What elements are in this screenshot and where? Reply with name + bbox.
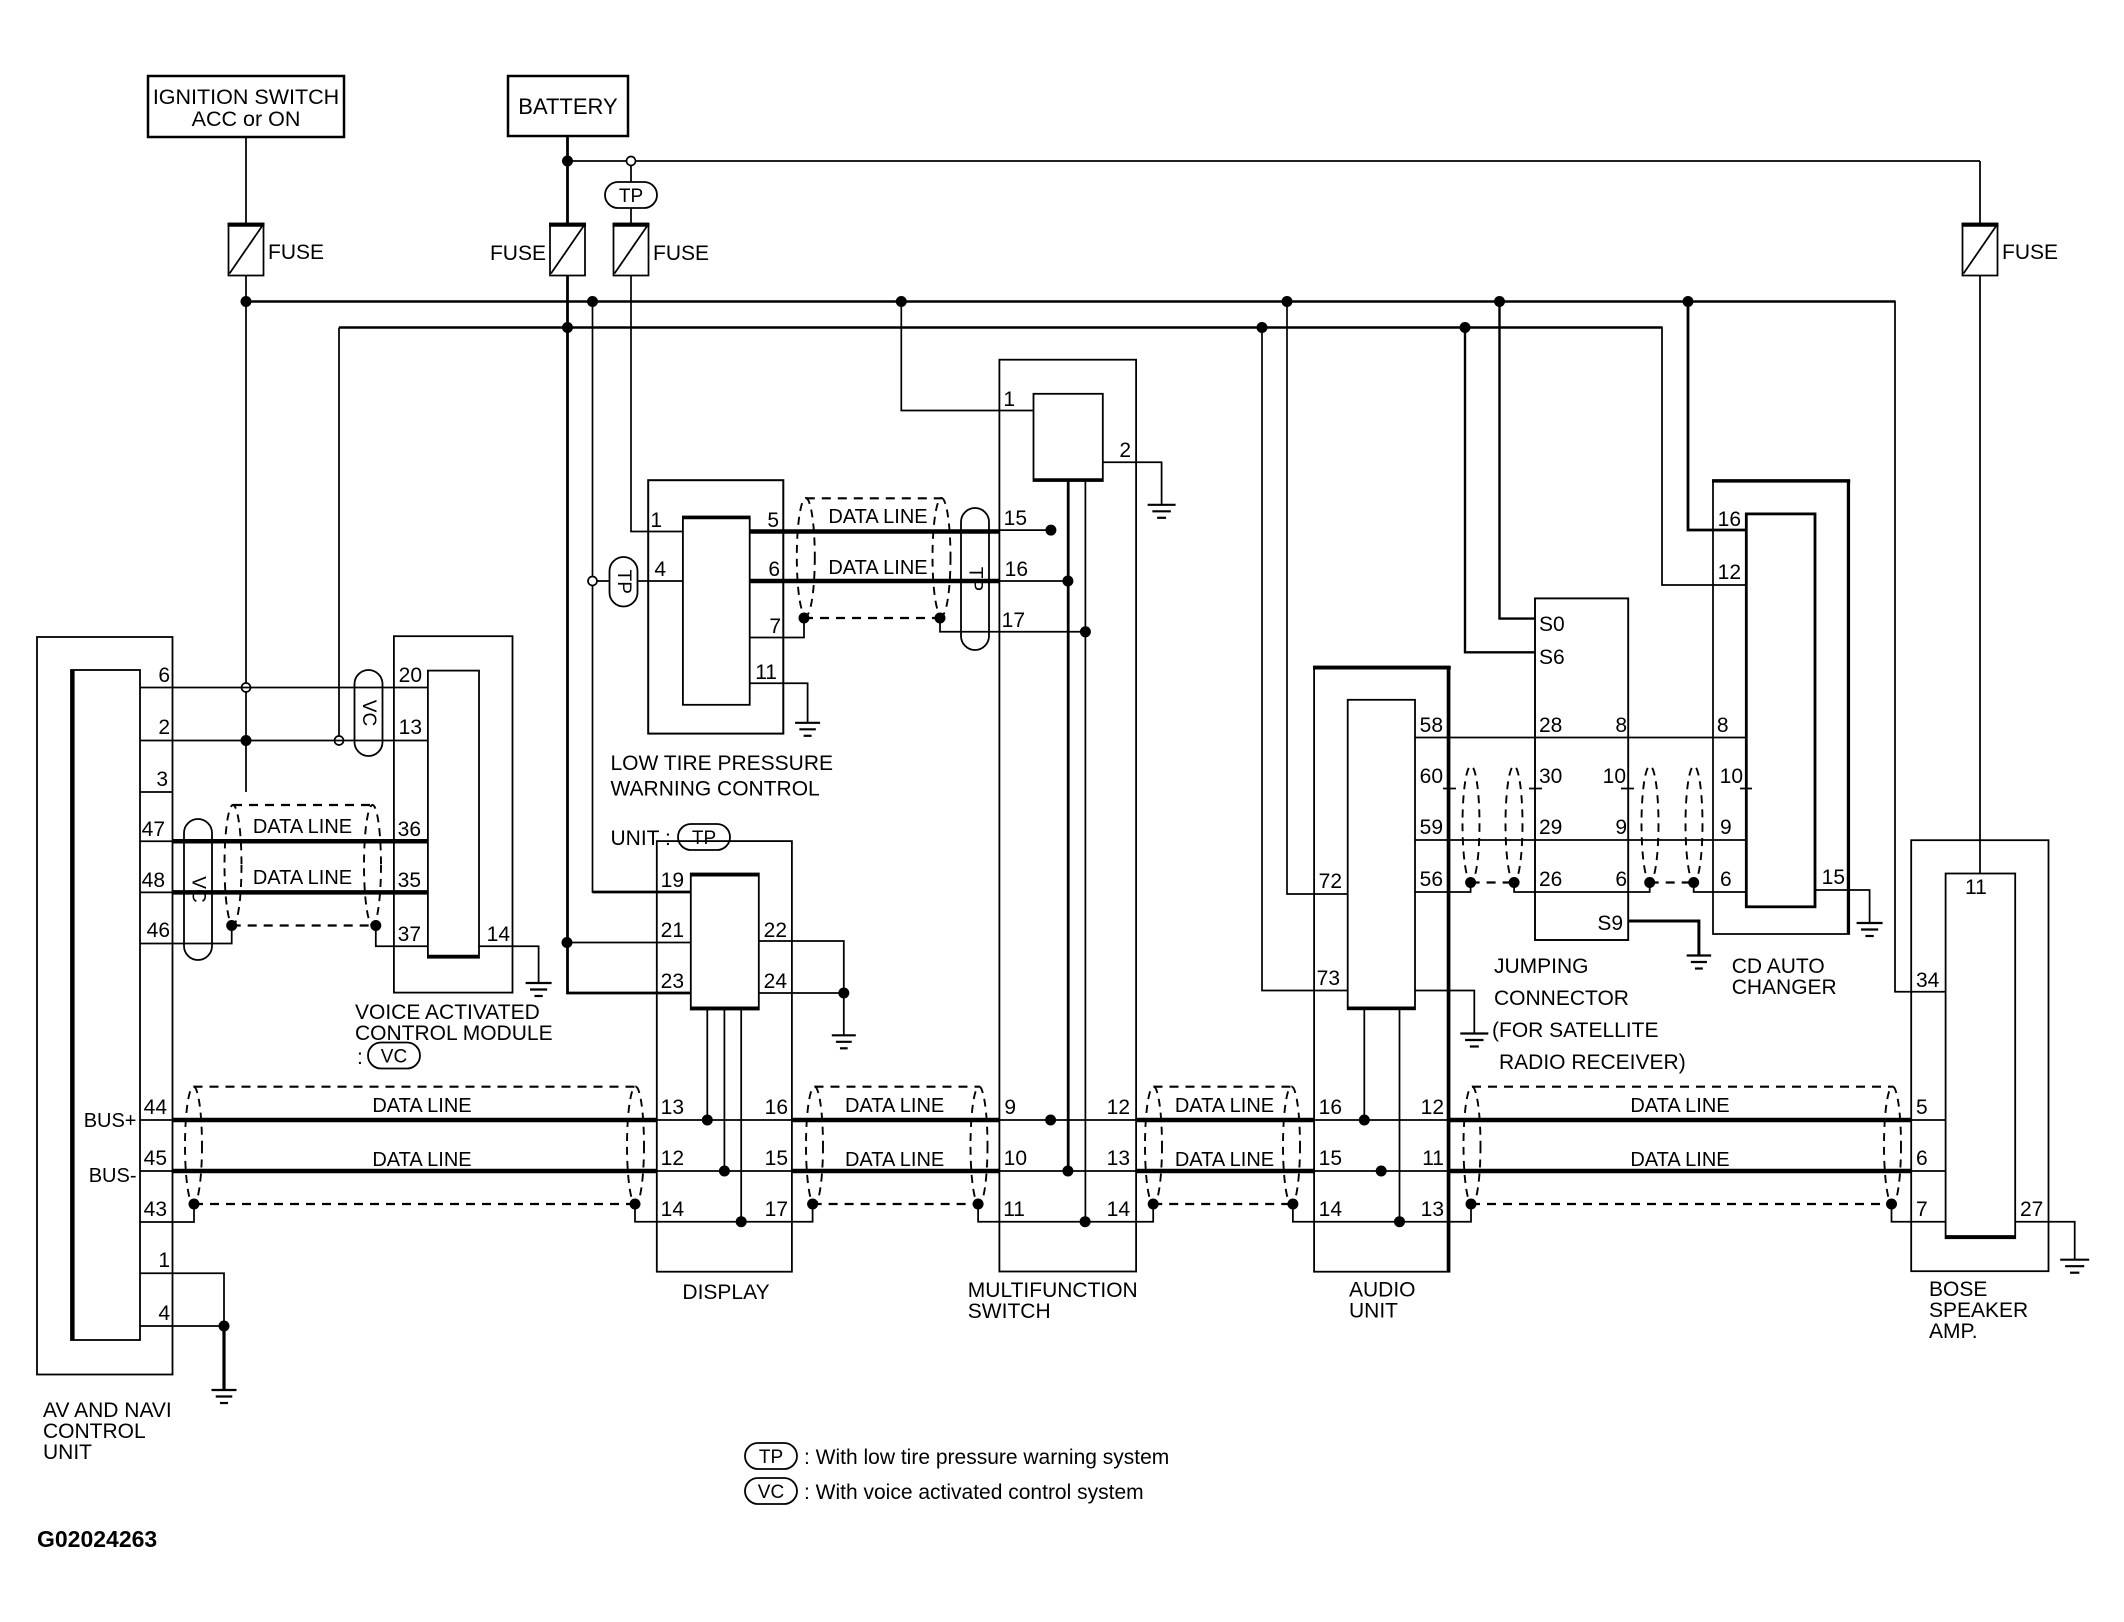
wire bus drop to BOSE pin34 <box>1895 301 1946 992</box>
shield ellipse display-left side <box>627 1087 644 1205</box>
svg-text:9: 9 <box>1615 816 1627 839</box>
node MF dot row10 <box>1062 1166 1073 1177</box>
svg-text:FUSE: FUSE <box>490 242 546 265</box>
pin 13 label <box>399 716 422 739</box>
label DATA LINE (AV-display 1) <box>372 1095 471 1117</box>
wire row 59-29-9 <box>1415 839 1746 841</box>
svg-text:G02024263: G02024263 <box>37 1526 157 1552</box>
connector option oval TP (top) <box>605 165 657 224</box>
pin 46 label <box>147 919 170 942</box>
connector option oval VC (AV pins 6-2) <box>355 670 383 756</box>
node MF dot row9 <box>1045 1115 1056 1126</box>
node ACC-pin6 open circle <box>242 683 251 692</box>
VACM inner connector box <box>428 671 479 958</box>
svg-text:6: 6 <box>158 664 170 687</box>
svg-text:12: 12 <box>1107 1096 1130 1119</box>
svg-text:21: 21 <box>661 919 684 942</box>
svg-text:47: 47 <box>142 818 165 841</box>
pin 16 label (MF) <box>1005 558 1028 581</box>
wire shield top dash (AV-VACM) <box>233 804 373 806</box>
pin 44 label <box>144 1096 168 1119</box>
label DISPLAY <box>682 1281 769 1304</box>
pin 36 label <box>398 818 421 841</box>
svg-text:12: 12 <box>1421 1096 1444 1119</box>
svg-text:36: 36 <box>398 818 421 841</box>
wire audio vertical v2 <box>1399 1010 1401 1222</box>
svg-text:FUSE: FUSE <box>2002 241 2058 264</box>
svg-text:ACC or ON: ACC or ON <box>192 107 301 131</box>
shield ellipse display-right side <box>806 1087 823 1205</box>
pin 1 label (MF) <box>1003 388 1015 411</box>
pin 1 label (AV) <box>158 1249 170 1272</box>
node audio dot 16 <box>1359 1115 1370 1126</box>
svg-text:RADIO RECEIVER): RADIO RECEIVER) <box>1499 1051 1686 1074</box>
label LOW TIRE PRESSURE WARNING CONTROL UNIT <box>611 752 834 850</box>
svg-text:7: 7 <box>769 615 781 638</box>
svg-text:SPEAKER: SPEAKER <box>1929 1299 2028 1322</box>
CD auto changer outer box <box>1712 480 1850 934</box>
svg-text:BUS-: BUS- <box>89 1165 137 1187</box>
pin 45 label <box>144 1147 167 1170</box>
svg-text:24: 24 <box>764 970 788 993</box>
svg-text:5: 5 <box>767 509 779 532</box>
label MULTIFUNCTION SWITCH <box>968 1279 1138 1323</box>
pin 8 label (JC) <box>1615 714 1627 737</box>
wire AV pin43 drain <box>140 1204 194 1222</box>
svg-text:TP: TP <box>759 1447 783 1468</box>
svg-text:WARNING CONTROL: WARNING CONTROL <box>611 778 820 801</box>
svg-text:DATA LINE: DATA LINE <box>1630 1149 1729 1171</box>
svg-text:8: 8 <box>1615 714 1627 737</box>
pin 6 label (bose) <box>1916 1147 1928 1170</box>
ground display <box>832 1035 856 1048</box>
ground audio <box>1460 1034 1488 1047</box>
wire drain jog through display <box>635 1204 813 1222</box>
svg-text:DATA LINE: DATA LINE <box>372 1095 471 1117</box>
battery box <box>508 76 628 136</box>
shield ellipse AV-VACM left <box>225 805 242 925</box>
svg-text:S9: S9 <box>1597 912 1623 935</box>
ground CD <box>1857 923 1883 936</box>
node bus junction B3 <box>1460 322 1471 333</box>
pin 19 label <box>661 869 684 892</box>
wire JC S9 to ground <box>1628 921 1699 956</box>
pin 3 label <box>156 768 168 791</box>
svg-text:TP: TP <box>692 828 716 849</box>
pin 10 label (JC) <box>1603 765 1626 788</box>
svg-text:16: 16 <box>765 1096 788 1119</box>
svg-text:DATA LINE: DATA LINE <box>828 506 927 528</box>
node audio dot 13 <box>1394 1216 1405 1227</box>
svg-text:2: 2 <box>1119 439 1131 462</box>
wire BUS+ data line AV-display <box>140 1119 657 1121</box>
wire battery down <box>566 136 569 224</box>
pin 35 label <box>398 869 421 892</box>
svg-text:20: 20 <box>399 664 422 687</box>
svg-text:17: 17 <box>765 1198 788 1221</box>
label S9 <box>1597 912 1623 935</box>
pin 60 label <box>1420 765 1443 788</box>
pin 11 label (audio) <box>1422 1147 1444 1170</box>
svg-text:10: 10 <box>1004 1147 1027 1170</box>
node ACC-pin2 junction <box>241 735 252 746</box>
node battery junction <box>562 156 573 167</box>
pin 6 label (JC) <box>1615 868 1627 891</box>
svg-text:TP: TP <box>965 567 986 591</box>
wire shield top dash (MF-audio) <box>1154 1086 1292 1088</box>
wire shield drain dash (MF-audio) <box>1153 1203 1293 1205</box>
legend VC <box>745 1478 1144 1504</box>
node drain dot MF-side <box>935 613 946 624</box>
wire battery branch right <box>568 161 1981 224</box>
wire MF vertical thick <box>1067 481 1070 1171</box>
wire BUS+ data line MF-audio <box>1136 1118 1314 1123</box>
svg-text:60: 60 <box>1420 765 1443 788</box>
ground MF <box>1148 505 1176 518</box>
node drain dot VACM-right <box>370 920 381 931</box>
label DATA LINE (LTPW 1) <box>828 506 927 528</box>
ground AV <box>212 1390 237 1403</box>
label AV AND NAVI CONTROL UNIT <box>43 1399 172 1464</box>
svg-text:AUDIO: AUDIO <box>1349 1279 1416 1302</box>
svg-text:VC: VC <box>758 1482 784 1503</box>
svg-text:S0: S0 <box>1539 613 1565 636</box>
wire shield drain dash (AV-display) <box>194 1203 635 1205</box>
node AV ground junction <box>219 1321 230 1332</box>
svg-text:JUMPING: JUMPING <box>1494 955 1589 978</box>
multifunction switch outer box <box>999 360 1136 1272</box>
node MF dot row11 <box>1080 1216 1091 1227</box>
wire bus drop to CD pin12 <box>1662 327 1746 586</box>
svg-text:16: 16 <box>1005 558 1028 581</box>
node bus junction A1 <box>241 296 252 307</box>
svg-text:30: 30 <box>1539 765 1562 788</box>
svg-text:48: 48 <box>142 869 165 892</box>
svg-text:DATA LINE: DATA LINE <box>372 1149 471 1171</box>
wire AV pin3 stub <box>140 791 173 793</box>
svg-text:BATTERY: BATTERY <box>518 94 618 119</box>
svg-text:AMP.: AMP. <box>1929 1320 1978 1343</box>
wire display pin24 <box>759 992 844 994</box>
label FUSE F1 <box>268 241 324 264</box>
pin 2 label <box>158 716 170 739</box>
node open circle TP branch <box>627 157 636 166</box>
wire drain jog through audio <box>1293 1204 1471 1222</box>
svg-text:28: 28 <box>1539 714 1562 737</box>
svg-text:59: 59 <box>1420 816 1443 839</box>
svg-text:DATA LINE: DATA LINE <box>253 816 352 838</box>
pin 14 label (VACM) <box>487 923 511 946</box>
wire MF internal 10-13 <box>999 1170 1136 1172</box>
svg-text:4: 4 <box>158 1302 170 1325</box>
label FUSE F3 <box>653 242 709 265</box>
pin 6 label (CD) <box>1720 868 1732 891</box>
node bus junction A5 <box>1494 296 1505 307</box>
wire lower bus drop to audio pin73 <box>1262 328 1348 991</box>
pin 9 label (JC) <box>1615 816 1627 839</box>
pin 6 label (LTPW) <box>768 558 780 581</box>
pin 13 label (audio) <box>1421 1198 1444 1221</box>
pin 21 label <box>661 919 684 942</box>
pin 15 label (MF) <box>1004 507 1027 530</box>
node drain dot AV <box>189 1199 200 1210</box>
wire MF vertical thin <box>1084 481 1086 1222</box>
svg-text:LOW TIRE PRESSURE: LOW TIRE PRESSURE <box>611 752 834 775</box>
pin 11 label (bose) <box>1965 876 1987 899</box>
wire AV pin47 data line <box>140 840 428 842</box>
wire shield drain dash (LTPW-MF) <box>804 617 940 619</box>
pin 11 label (MF) <box>1003 1198 1025 1221</box>
svg-text:15: 15 <box>765 1147 788 1170</box>
display inner connector box <box>691 874 759 1010</box>
label AUDIO UNIT <box>1349 1279 1416 1323</box>
svg-text:15: 15 <box>1004 507 1027 530</box>
pin 22 label <box>764 919 787 942</box>
shield ellipse MF-left side <box>971 1087 988 1205</box>
svg-text:S6: S6 <box>1539 646 1565 669</box>
wire bus drop to TP/display 19 <box>593 302 691 893</box>
svg-text:CD AUTO: CD AUTO <box>1732 955 1825 978</box>
node drain dot JC-CD-2 <box>1688 877 1699 888</box>
wire shield drain dash (AV-VACM) <box>232 924 376 926</box>
svg-text:11: 11 <box>755 661 777 684</box>
wire fuse F3 to LTPW pin1 <box>631 276 683 532</box>
wire lower bus drop to AV pin2 <box>338 328 340 737</box>
svg-text:UNIT: UNIT <box>43 1441 92 1464</box>
label S0 <box>1539 613 1565 636</box>
display outer box <box>657 841 792 1272</box>
svg-text:29: 29 <box>1539 816 1562 839</box>
node MF pin16 dot <box>1062 576 1073 587</box>
wire ignition to fuse F1 <box>245 137 247 224</box>
pin 37 label <box>398 923 421 946</box>
svg-text:14: 14 <box>487 923 511 946</box>
svg-text:46: 46 <box>147 919 170 942</box>
wire AV pin48 data line <box>140 891 428 893</box>
pin 10 label (CD) <box>1720 765 1743 788</box>
pin 12 label (audio) <box>1421 1096 1444 1119</box>
ground bose <box>2060 1260 2089 1273</box>
svg-text:10: 10 <box>1603 765 1626 788</box>
wire BUS- data line audio-bose <box>1448 1169 1911 1174</box>
svg-text:73: 73 <box>1317 967 1340 990</box>
wire CD pin6 feed <box>1694 883 1747 893</box>
pin 29 label <box>1539 816 1562 839</box>
svg-text:DATA LINE: DATA LINE <box>1175 1149 1274 1171</box>
pin 13 label (display) <box>661 1096 684 1119</box>
pin 24 label <box>764 970 788 993</box>
shield ellipse bose side <box>1884 1087 1901 1205</box>
node bus junction A6 <box>1683 296 1694 307</box>
wire BUS- data line AV-display <box>140 1170 657 1172</box>
wire drain jog through MF <box>978 1204 1153 1222</box>
svg-text:BUS+: BUS+ <box>84 1110 137 1132</box>
svg-text:BOSE: BOSE <box>1929 1278 1987 1301</box>
svg-text:13: 13 <box>1107 1147 1130 1170</box>
wire audio vertical v1 <box>1363 1010 1365 1121</box>
node drain dot audio-left <box>1287 1199 1298 1210</box>
pin 14 label (audio) <box>1319 1198 1343 1221</box>
svg-text:37: 37 <box>398 923 421 946</box>
svg-text:VC: VC <box>358 700 379 726</box>
svg-text:VC: VC <box>381 1047 407 1068</box>
pin 26 label <box>1539 868 1562 891</box>
wire display vertical v3 <box>740 1010 742 1222</box>
pin 4 label (LTPW) <box>654 558 666 581</box>
svg-text:6: 6 <box>1916 1147 1928 1170</box>
wire audio internal 16-12 <box>1314 1119 1448 1121</box>
wire audio right ground pin <box>1415 991 1474 1034</box>
pin 17 label (MF) <box>1002 609 1025 632</box>
shield ellipse audio-right side <box>1464 1087 1481 1205</box>
connector option oval TP (LTPW pin4) <box>610 557 638 607</box>
node bus junction A3 <box>896 296 907 307</box>
svg-text:1: 1 <box>650 509 662 532</box>
svg-text:9: 9 <box>1004 1096 1016 1119</box>
pin 16 label (display) <box>765 1096 788 1119</box>
wire LTPW pin11 <box>750 683 808 723</box>
node drain dot MF-right <box>1148 1199 1159 1210</box>
pin 7 label (LTPW) <box>769 615 781 638</box>
connector option oval VC (AV pins 47-48) <box>184 819 212 960</box>
node drain dot VACM-left <box>226 920 237 931</box>
svg-text:: With low tire pressure warni: : With low tire pressure warning system <box>804 1446 1169 1469</box>
svg-text:58: 58 <box>1420 714 1443 737</box>
pin 13 label (MF) <box>1107 1147 1130 1170</box>
svg-text:12: 12 <box>661 1147 684 1170</box>
wire data line LTPW5-MF15 <box>750 529 1000 534</box>
pin 30 label <box>1539 765 1562 788</box>
svg-text:26: 26 <box>1539 868 1562 891</box>
label S6 <box>1539 646 1565 669</box>
svg-text:AV AND NAVI: AV AND NAVI <box>43 1399 172 1422</box>
node drain dot audio-JC-1 <box>1465 877 1476 888</box>
pin 73 label <box>1317 967 1340 990</box>
svg-text:1: 1 <box>158 1249 170 1272</box>
node display ground junction <box>838 988 849 999</box>
ground LTPW <box>795 723 820 736</box>
pin 59 label <box>1420 816 1443 839</box>
svg-text:10: 10 <box>1720 765 1743 788</box>
svg-text:45: 45 <box>144 1147 167 1170</box>
wire shield top dash (display-MF) <box>815 1086 980 1088</box>
audio inner connector box <box>1348 700 1415 1010</box>
ground VACM <box>526 983 552 996</box>
fuse F3 <box>613 224 650 276</box>
label DATA LINE (MF-audio 2) <box>1175 1149 1274 1171</box>
svg-text:CONTROL MODULE: CONTROL MODULE <box>355 1022 553 1045</box>
svg-text:DISPLAY: DISPLAY <box>682 1281 769 1304</box>
svg-text:UNIT: UNIT <box>1349 1300 1398 1323</box>
pin 58 label <box>1420 714 1443 737</box>
fuse F4 <box>1962 224 1999 276</box>
node drain dot JC-CD-1 <box>1644 877 1655 888</box>
MF inner connector box <box>1034 394 1103 481</box>
svg-text:14: 14 <box>661 1198 685 1221</box>
label G02024263 <box>37 1526 157 1552</box>
bose inner connector box <box>1946 874 2016 1239</box>
pin 23 label <box>661 970 684 993</box>
node display dot 14 <box>736 1216 747 1227</box>
node bus junction B2 <box>1257 322 1268 333</box>
svg-text:19: 19 <box>661 869 684 892</box>
pin 5 label (LTPW) <box>767 509 779 532</box>
node audio dot 15 <box>1376 1166 1387 1177</box>
svg-text:13: 13 <box>399 716 422 739</box>
wire shield top dash (AV-display) <box>194 1086 636 1088</box>
svg-text:6: 6 <box>1720 868 1732 891</box>
svg-text:11: 11 <box>1965 876 1987 899</box>
legend TP <box>745 1443 1169 1469</box>
wire bus drop to audio pin72 <box>1287 302 1348 895</box>
node bus junction B1 <box>562 322 573 333</box>
pin 9 label (CD) <box>1720 816 1732 839</box>
svg-text:TP: TP <box>619 186 643 207</box>
wire CD pin15 to ground <box>1815 890 1870 923</box>
pin 11 label (LTPW) <box>755 661 777 684</box>
label DATA LINE (AV-VACM 2) <box>253 867 352 889</box>
node drain dot audio-right <box>1466 1199 1477 1210</box>
pin 72 label <box>1319 870 1342 893</box>
svg-text:15: 15 <box>1822 866 1845 889</box>
svg-text:14: 14 <box>1319 1198 1343 1221</box>
svg-text:13: 13 <box>661 1096 684 1119</box>
label BUS- <box>89 1165 137 1187</box>
svg-text:56: 56 <box>1420 868 1443 891</box>
wire MF pin2 to ground <box>1103 462 1162 505</box>
fuse F1 <box>228 224 265 276</box>
pin 43 label <box>144 1198 167 1221</box>
ground JC S9 <box>1687 956 1712 969</box>
pin 47 label <box>142 818 165 841</box>
svg-text:6: 6 <box>768 558 780 581</box>
wire battery feed down <box>568 276 691 994</box>
label BOSE SPEAKER AMP. <box>1929 1278 2028 1343</box>
node AV-pin2 open circle <box>335 736 344 745</box>
svg-text:DATA LINE: DATA LINE <box>253 867 352 889</box>
jumping connector box <box>1535 598 1628 940</box>
wire BUS+ data line display-MF <box>792 1118 1000 1123</box>
svg-text:16: 16 <box>1718 508 1741 531</box>
wire AV ground stem <box>222 1326 225 1390</box>
svg-text:5: 5 <box>1916 1096 1928 1119</box>
svg-text:35: 35 <box>398 869 421 892</box>
svg-text:IGNITION SWITCH: IGNITION SWITCH <box>153 85 339 109</box>
wire display ground stem <box>843 993 845 1035</box>
wire bus drop to MF pin1 <box>901 302 1033 411</box>
shield ellipse LTPW-MF right <box>933 498 951 616</box>
svg-text:16: 16 <box>1319 1096 1342 1119</box>
svg-text:15: 15 <box>1319 1147 1342 1170</box>
wire display pin21 feed <box>567 942 691 944</box>
wire bus drop to CD pin16 <box>1688 302 1746 531</box>
svg-text:FUSE: FUSE <box>653 242 709 265</box>
label CD AUTO CHANGER <box>1732 955 1837 999</box>
pin 28 label <box>1539 714 1562 737</box>
svg-text:44: 44 <box>144 1096 168 1119</box>
wire MF pin16 internal <box>1000 580 1068 582</box>
pin 15 label (audio) <box>1319 1147 1342 1170</box>
label DATA LINE (audio-bose 2) <box>1630 1149 1729 1171</box>
svg-text:8: 8 <box>1717 714 1729 737</box>
wire fuse F4 to bose pin11 <box>1979 276 1981 874</box>
wire display internal 12-15 <box>657 1170 792 1172</box>
wire lower bus drop to JC S6 <box>1465 328 1535 653</box>
audio unit outer box <box>1313 667 1451 1272</box>
pin 2 label (MF) <box>1119 439 1131 462</box>
svg-text:DATA LINE: DATA LINE <box>845 1095 944 1117</box>
svg-text:CONNECTOR: CONNECTOR <box>1494 987 1629 1010</box>
